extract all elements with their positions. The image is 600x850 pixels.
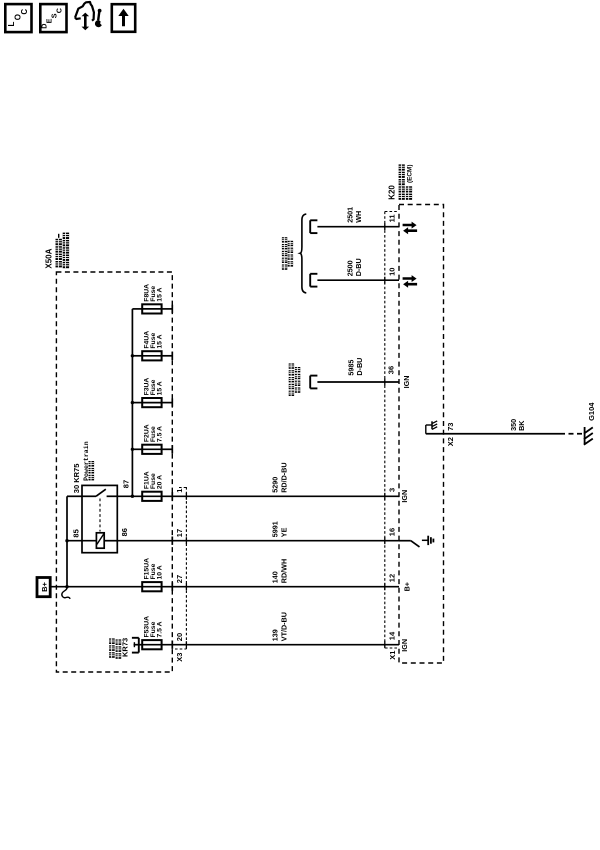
svg-text:X2: X2	[446, 437, 455, 446]
label pin 14 X1	[388, 631, 397, 640]
label X1	[388, 651, 397, 660]
svg-text:73: 73	[446, 423, 455, 431]
icon DESC button	[39, 4, 66, 32]
wire 140 RD/WH	[67, 586, 142, 588]
svg-text:BK: BK	[517, 420, 526, 431]
label pin 36 X1	[386, 366, 395, 374]
label IGN pin 36	[402, 376, 411, 389]
svg-text:VT/D-BU: VT/D-BU	[280, 612, 289, 641]
svg-text:IGN: IGN	[400, 639, 409, 652]
label B+ pin 12	[402, 582, 411, 591]
switch ECM driver pin 16	[399, 541, 420, 547]
serial data arrows pin 11	[403, 222, 418, 235]
label pin 3 X1	[388, 488, 397, 492]
svg-text:15 A: 15 A	[157, 381, 164, 395]
wire relay pin 30	[67, 495, 82, 497]
label G104	[587, 402, 596, 421]
wire fuse branch F8UA	[132, 308, 172, 310]
ground G104 symbol	[584, 427, 593, 445]
svg-text:(ECM): (ECM)	[406, 165, 413, 183]
relay switch contact	[82, 489, 117, 496]
label ECM Chinese: engine control module	[399, 164, 414, 199]
label pin 1 X3	[175, 489, 184, 493]
wire 350 BK	[426, 433, 560, 435]
svg-text:3: 3	[388, 488, 397, 492]
off-page connector wire 5985	[310, 376, 317, 389]
svg-text:14: 14	[388, 631, 397, 640]
svg-text:1: 1	[175, 489, 184, 493]
svg-text:X3: X3	[175, 653, 184, 662]
terminal tick F15UA at box edge	[171, 583, 173, 591]
svg-text:YE: YE	[280, 527, 289, 537]
label Powertrain	[83, 441, 90, 481]
terminal tick F8UA at box edge	[171, 305, 173, 313]
label IGN pin 3	[400, 490, 409, 503]
svg-text:WH: WH	[354, 211, 363, 223]
fuse F15UA 10 A	[142, 582, 161, 591]
brace serial data group	[300, 214, 306, 293]
terminal B+	[37, 578, 50, 597]
label relay Chinese	[89, 461, 95, 480]
svg-text:20: 20	[175, 633, 184, 641]
terminal tick F4UA at box edge	[171, 352, 173, 360]
terminal tick F1UA at box edge	[171, 492, 173, 500]
label pin 10 X1	[388, 268, 397, 276]
svg-text:RD/WH: RD/WH	[280, 559, 289, 583]
node junction F4UA	[131, 354, 134, 357]
label pin 11 X1	[388, 214, 397, 222]
wire 5290 RD/D-BU	[162, 495, 399, 497]
fuse F4UA 15 A	[142, 351, 161, 360]
wire pin 87 to fuse F1UA	[117, 495, 142, 497]
svg-text:85: 85	[71, 529, 80, 537]
fuse F53UA 7.5 A	[142, 640, 161, 649]
off-page feed KR73 bracket	[132, 638, 139, 653]
svg-text:15 A: 15 A	[157, 334, 164, 348]
node junction F2UA	[131, 448, 134, 451]
label circuit 5985 D-BU	[347, 358, 365, 376]
label X2	[446, 437, 455, 446]
svg-text:139: 139	[270, 629, 279, 641]
wire B+ continues squiggle	[62, 588, 70, 599]
svg-text:15 A: 15 A	[157, 288, 164, 302]
label circuit 350 BK	[509, 419, 526, 431]
svg-text:86: 86	[120, 528, 129, 536]
svg-text:7.5 A: 7.5 A	[157, 426, 164, 442]
svg-text:140: 140	[270, 571, 279, 583]
svg-text:X1: X1	[388, 651, 397, 660]
svg-text:D-BU: D-BU	[354, 258, 363, 276]
svg-text:5290: 5290	[270, 477, 279, 493]
label pin 87	[122, 480, 131, 488]
label 30 KR75	[72, 464, 81, 494]
label F15UA 10 A	[143, 558, 163, 580]
fuse F2UA 7.5 A	[142, 445, 161, 454]
label pin 16 X1	[388, 528, 397, 536]
label F8UA 15 A	[143, 284, 163, 302]
label circuit 2500 D-BU	[345, 258, 362, 276]
icon up-arrow button	[112, 4, 135, 32]
label X50A	[45, 248, 54, 268]
wire fuse bus vertical	[131, 309, 133, 496]
label F4UA 15 A	[143, 331, 163, 349]
ground ECM internal chassis symbol	[426, 421, 437, 434]
wire KR73 to fuse F53UA	[134, 644, 143, 646]
icon vehicle-lift with wrench	[75, 2, 102, 30]
svg-text:KR73: KR73	[120, 638, 129, 657]
wire 5991 YE	[117, 540, 399, 542]
svg-text:IGN: IGN	[400, 490, 409, 503]
label circuit 5991 YE	[270, 521, 288, 537]
label pin 86	[120, 528, 129, 536]
svg-text:10 A: 10 A	[157, 565, 164, 579]
svg-text:C: C	[20, 9, 29, 15]
relay KR75 box	[82, 485, 117, 552]
connector X3 dashed strip	[175, 487, 186, 649]
svg-text:30 KR75: 30 KR75	[72, 464, 81, 494]
label pin 73 X2	[446, 423, 455, 431]
terminal ticks X3 pins	[185, 493, 187, 648]
label IGN pin 14	[400, 639, 409, 652]
svg-text:87: 87	[122, 480, 131, 488]
label pin 17 X3	[175, 529, 184, 537]
wire 140 RD/WH to ECM	[162, 586, 399, 588]
ground ECM internal earth symbol	[422, 536, 434, 545]
off-page connector wire 2501	[310, 220, 317, 233]
wire B+ to junction	[50, 586, 67, 588]
label circuit 140 RD/WH	[270, 559, 288, 583]
svg-text:X50A: X50A	[45, 248, 54, 268]
label F2UA 7.5 A	[143, 424, 163, 442]
svg-text:RD/D-BU: RD/D-BU	[280, 462, 289, 492]
svg-text:7.5 A: 7.5 A	[157, 621, 164, 637]
wire 139 VT/D-BU	[162, 644, 399, 646]
wire fuse branch F4UA	[132, 355, 172, 357]
wire fuse branch F3UA	[132, 402, 172, 404]
svg-text:L: L	[7, 22, 16, 27]
label pin 12 X1	[388, 574, 397, 582]
module K20 ECM dashed outline	[399, 205, 444, 664]
svg-text:K20: K20	[387, 185, 396, 200]
serial data arrows pin 10	[403, 275, 418, 288]
wire B+ feed vertical	[66, 496, 68, 586]
svg-text:B+: B+	[40, 581, 49, 591]
fuse F3UA 15 A	[142, 398, 161, 407]
label X50A Chinese: fuse box - underhood	[56, 233, 70, 269]
label data communication schematics Chinese (5985)	[289, 363, 301, 396]
svg-text:IGN: IGN	[402, 376, 411, 389]
label KR73	[120, 638, 129, 657]
node junction B+ bus	[65, 585, 68, 588]
terminal tick F53UA at box edge	[171, 641, 173, 649]
connector X1 dashed strip	[385, 212, 398, 649]
fuse box X50A dashed outline	[56, 272, 172, 672]
label KR73 ignition main relay Chinese	[109, 638, 121, 658]
label circuit 5290 RD/D-BU	[270, 462, 288, 492]
label pin 27 X3	[175, 575, 184, 583]
wire 2501 WH	[317, 226, 399, 228]
terminal tick F2UA at box edge	[171, 445, 173, 453]
relay coil	[96, 533, 104, 548]
svg-text:D-BU: D-BU	[355, 358, 364, 376]
wire relay coil to pin 86	[104, 540, 117, 542]
wire relay pin 85	[67, 540, 96, 542]
label K20	[387, 185, 396, 200]
label circuit 2501 WH	[345, 207, 362, 223]
svg-text:36: 36	[386, 366, 395, 374]
terminal tick F3UA at box edge	[171, 398, 173, 406]
label pin 20 X3	[175, 633, 184, 641]
relay actuator dashed link	[99, 499, 101, 532]
fuse F1UA 20 A	[142, 492, 161, 501]
wire 5985 D-BU	[317, 381, 399, 383]
svg-text:17: 17	[175, 529, 184, 537]
label data communication schematics Chinese (brace)	[282, 237, 293, 270]
wire 350 BK dashed continuation	[560, 433, 584, 435]
off-page connector wire 2500	[310, 274, 317, 287]
terminal ticks X1 pins	[384, 223, 386, 648]
label F53UA 7.5 A	[143, 616, 163, 638]
label pin 85	[71, 529, 80, 537]
svg-text:5991: 5991	[270, 521, 279, 537]
wire fuse branch F2UA	[132, 448, 172, 450]
label F3UA 15 A	[143, 378, 163, 396]
node junction F3UA	[131, 401, 134, 404]
svg-text:20 A: 20 A	[157, 475, 164, 489]
svg-text:12: 12	[388, 574, 397, 582]
terminal tick KR73 feed	[133, 642, 135, 647]
svg-text:27: 27	[175, 575, 184, 583]
label circuit 139 VT/D-BU	[270, 612, 288, 641]
label F1UA 20 A	[143, 471, 163, 489]
wire 2500 D-BU	[317, 279, 399, 281]
terminal tick 5991 at box edge	[171, 537, 173, 545]
svg-text:11: 11	[388, 214, 397, 222]
svg-text:10: 10	[388, 268, 397, 276]
fuse F8UA 15 A	[142, 304, 161, 313]
svg-text:B+: B+	[402, 582, 411, 591]
label X3	[175, 653, 184, 662]
svg-text:16: 16	[388, 528, 397, 536]
node junction pin 85 feed	[65, 539, 68, 542]
icon LOC button	[5, 4, 31, 32]
node junction F1UA	[131, 495, 134, 498]
svg-text:G104: G104	[587, 402, 596, 421]
svg-text:C: C	[55, 8, 64, 13]
